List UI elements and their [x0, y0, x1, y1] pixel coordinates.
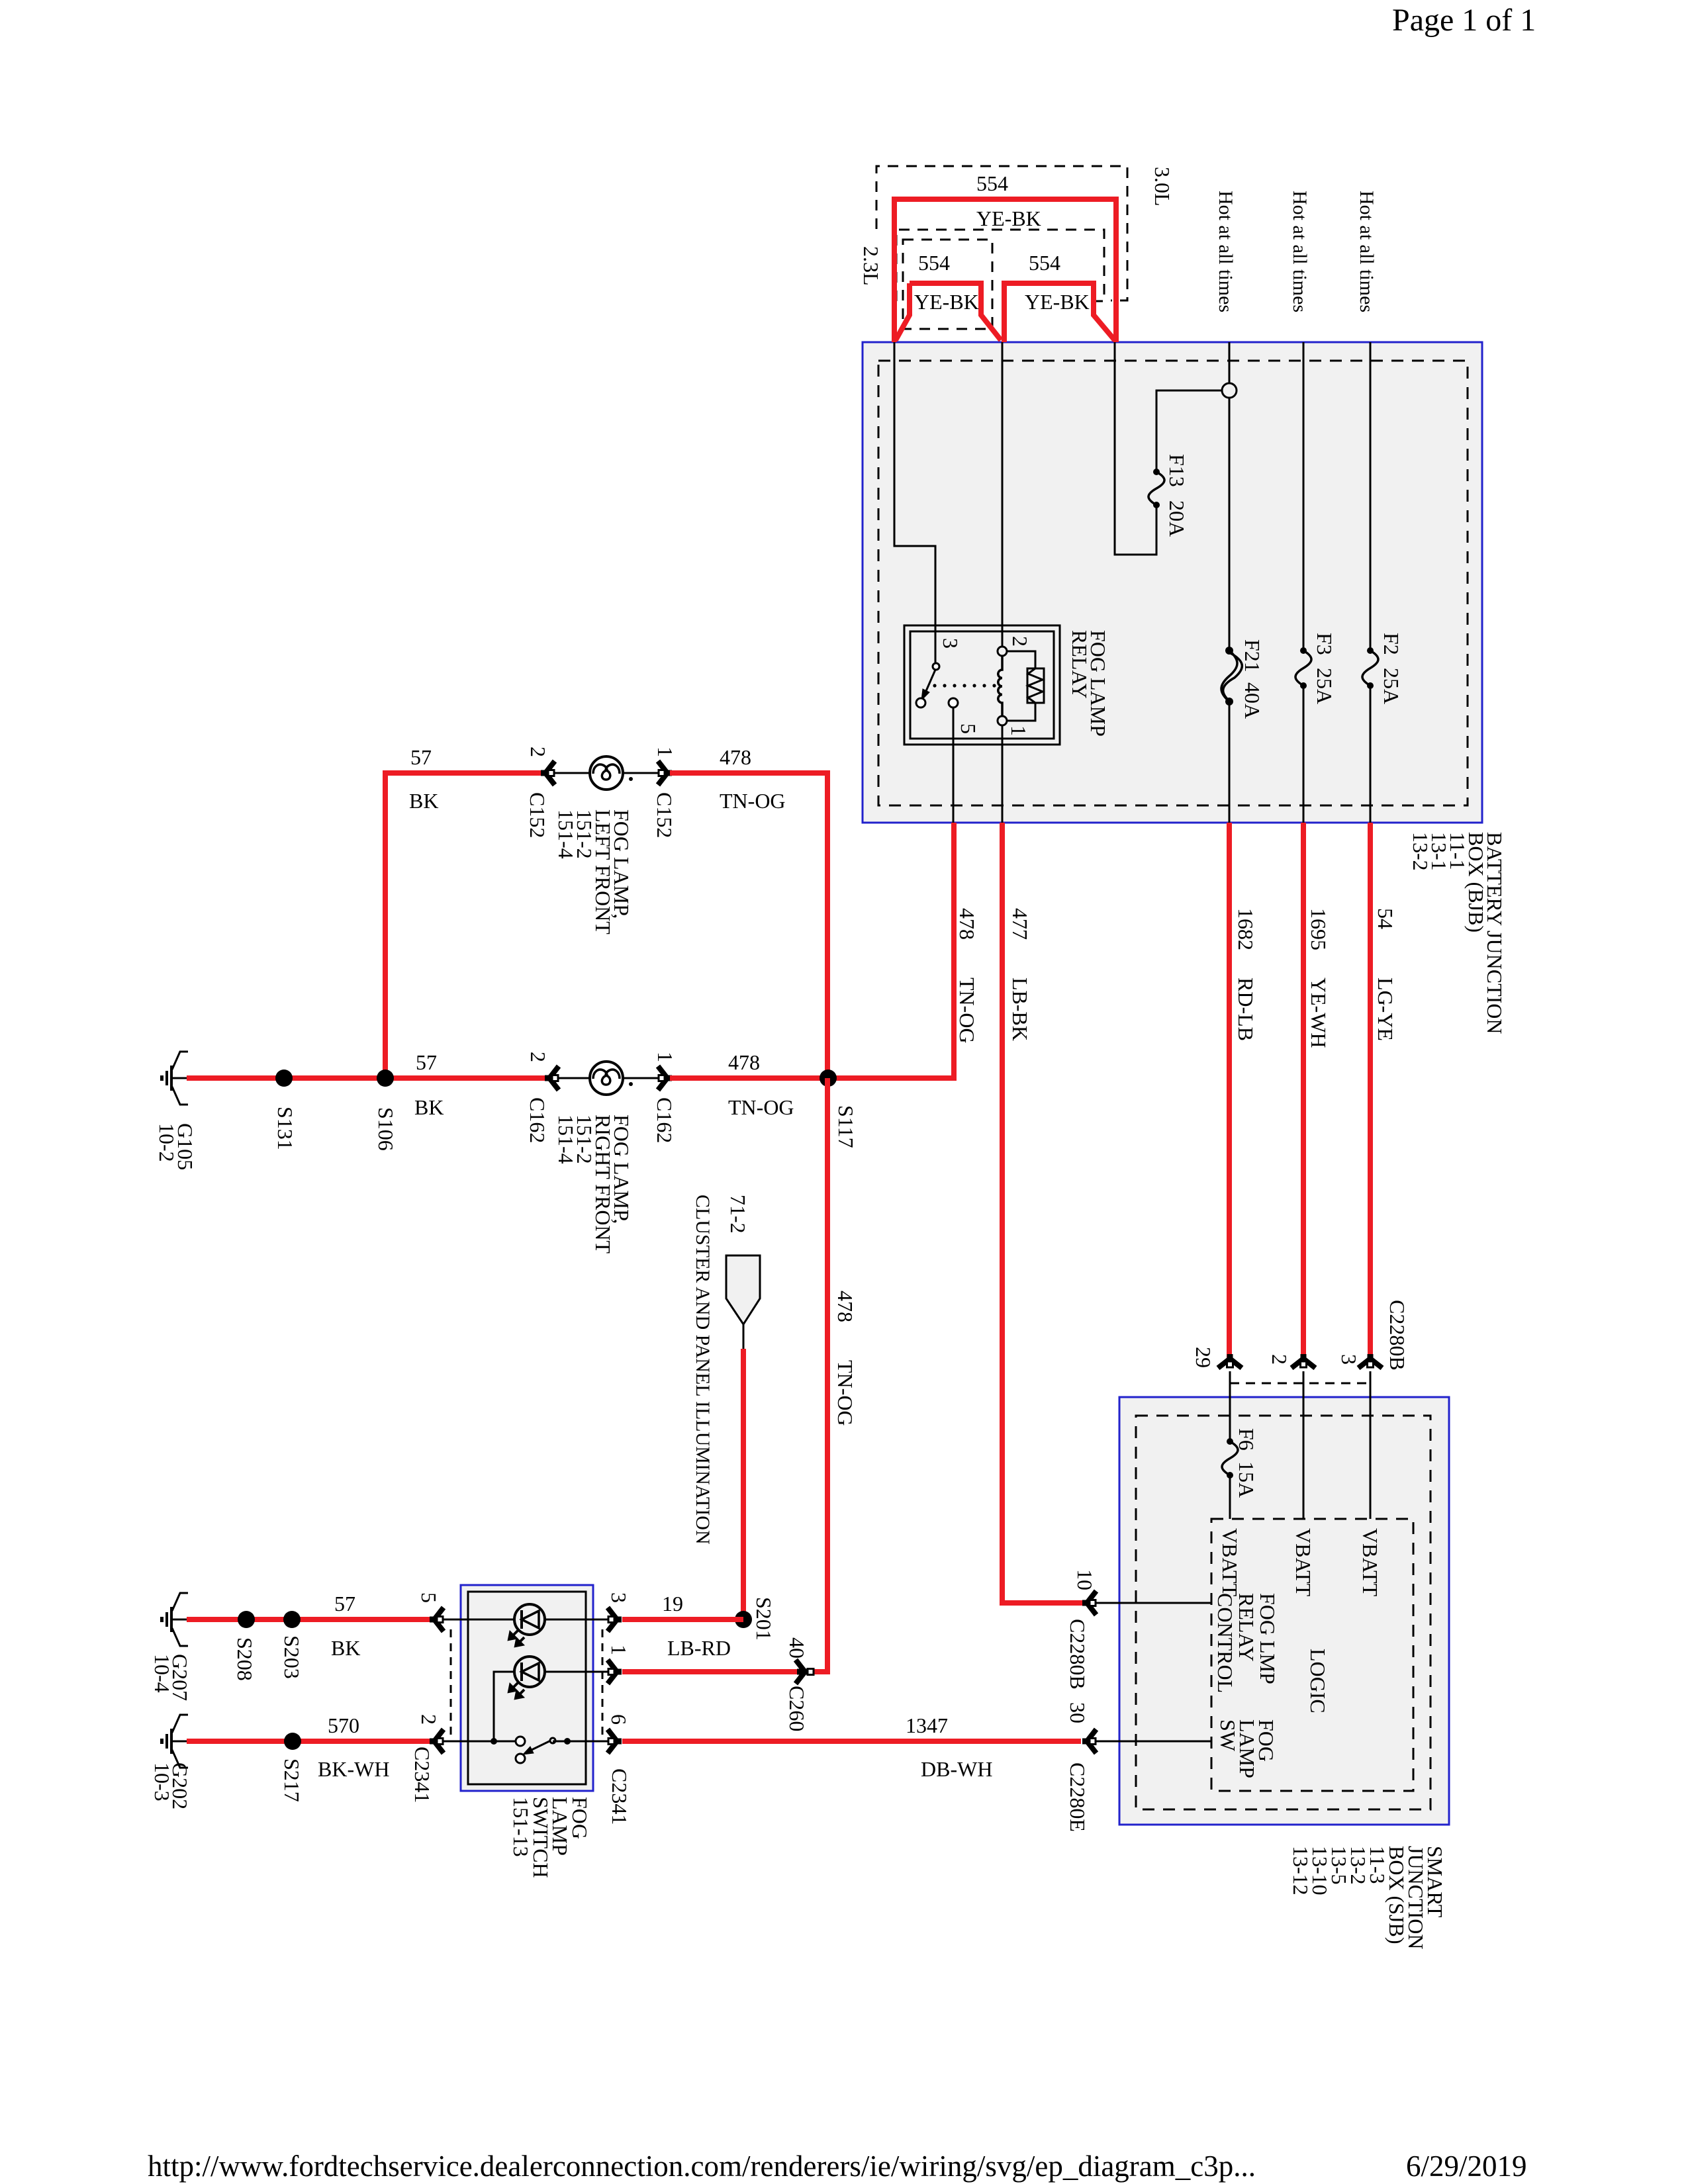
svg-text:S203: S203 — [280, 1635, 304, 1679]
svg-text:1682: 1682 — [1234, 908, 1258, 950]
fuse F21 40A — [1221, 647, 1242, 705]
smart junction box SJB — [1119, 1397, 1449, 1825]
svg-text:C152: C152 — [526, 792, 549, 838]
svg-text:29: 29 — [1192, 1347, 1215, 1368]
C2341 dashed connector lines — [450, 1629, 452, 1740]
wire 554 YE-BK 3.0L — [894, 199, 1116, 342]
splice S217 — [284, 1733, 301, 1750]
switch arm — [529, 1739, 553, 1751]
svg-text:478: 478 — [955, 908, 979, 940]
svg-text:TN-OG: TN-OG — [955, 978, 979, 1044]
svg-text:S201: S201 — [752, 1597, 776, 1641]
svg-text:19: 19 — [662, 1592, 683, 1615]
svg-text:25A: 25A — [1313, 668, 1336, 704]
wire VBATT 2 — [1303, 1371, 1305, 1519]
fuse F2 25A — [1362, 647, 1378, 689]
svg-text:F21: F21 — [1241, 639, 1264, 672]
wire 57 BK switch row — [187, 1617, 434, 1622]
wire switch internal left — [442, 1741, 516, 1743]
wire below F21 — [1229, 702, 1231, 823]
svg-text:25A: 25A — [1380, 668, 1403, 704]
svg-text:13-12: 13-12 — [1289, 1846, 1313, 1895]
svg-text:C2280E: C2280E — [1066, 1762, 1090, 1832]
svg-text:57: 57 — [334, 1592, 355, 1615]
wire 40 to C260 — [622, 1669, 814, 1674]
relay switch pivot — [933, 663, 939, 670]
relay dotted link — [933, 684, 996, 687]
svg-text:C152: C152 — [653, 792, 677, 838]
connector 71-2 cluster and panel illumination — [726, 1255, 760, 1324]
svg-text:TN-OG: TN-OG — [720, 789, 786, 813]
wire switch internal right — [553, 1741, 616, 1743]
svg-text:BK: BK — [331, 1636, 360, 1660]
F3 feed line — [1303, 342, 1305, 651]
fog lamp left front — [590, 756, 623, 790]
wire 1347 DB-WH — [622, 1739, 1081, 1744]
svg-text:Hot at all times: Hot at all times — [1289, 191, 1311, 312]
connector C152 pin 1 — [658, 761, 672, 785]
relay coil — [998, 656, 1002, 716]
F13 tap node — [1222, 383, 1237, 398]
svg-text:S117: S117 — [834, 1105, 858, 1148]
wire fog lmp relay control — [1096, 1602, 1211, 1604]
switch pivot — [550, 1738, 555, 1743]
wire 570 BK-WH — [187, 1739, 434, 1744]
wire lamp left internal — [553, 772, 661, 774]
svg-text:5: 5 — [957, 723, 980, 734]
svg-text:F3: F3 — [1313, 633, 1336, 655]
wire relay pin1 down — [1002, 725, 1004, 823]
svg-text:6/29/2019: 6/29/2019 — [1406, 2150, 1527, 2183]
svg-text:RELAY: RELAY — [1068, 630, 1092, 699]
connector C2280B pin 2 — [1291, 1354, 1315, 1368]
wire 19 LB-RD vertical — [741, 1349, 746, 1619]
svg-text:LB-BK: LB-BK — [1008, 978, 1032, 1041]
svg-text:C2341: C2341 — [410, 1747, 434, 1803]
ground G202 — [160, 1715, 189, 1768]
connector C152 pin 2 — [541, 761, 555, 785]
svg-text:BK-WH: BK-WH — [318, 1757, 389, 1781]
svg-text:F6: F6 — [1235, 1428, 1258, 1451]
svg-text:478: 478 — [720, 745, 751, 769]
svg-text:1695: 1695 — [1307, 908, 1331, 950]
svg-text:VBATT: VBATT — [1218, 1528, 1242, 1597]
svg-text:40: 40 — [785, 1637, 809, 1659]
svg-text:3: 3 — [939, 638, 962, 649]
svg-text:LB-RD: LB-RD — [667, 1636, 731, 1660]
svg-text:F2: F2 — [1380, 633, 1403, 655]
svg-text:10: 10 — [1073, 1569, 1097, 1590]
connector C162 pin 1 — [658, 1066, 672, 1090]
wire 54 LG-YE — [1368, 823, 1373, 1359]
wire 554 YE-BK 2.3L left — [896, 283, 910, 340]
connector C2280B pin 10 — [1082, 1591, 1096, 1615]
connector C2341 pin 1 — [608, 1660, 622, 1684]
svg-text:Hot at all times: Hot at all times — [1356, 191, 1378, 312]
wire F6 to logic — [1229, 1475, 1231, 1519]
svg-text:TN-OG: TN-OG — [833, 1360, 857, 1426]
svg-text:Page 1 of 1: Page 1 of 1 — [1392, 3, 1536, 38]
svg-text:1: 1 — [1007, 725, 1031, 736]
svg-text:C2341: C2341 — [608, 1768, 632, 1825]
svg-text:S217: S217 — [280, 1758, 304, 1802]
connector C260 pin 40 — [796, 1660, 814, 1684]
connector C2280B pin 3 — [1358, 1354, 1382, 1368]
splice S208 — [238, 1611, 255, 1628]
svg-text:478: 478 — [833, 1291, 857, 1322]
svg-text:554: 554 — [976, 171, 1008, 195]
wire VBATT 3 — [1370, 1371, 1372, 1519]
dashed option box 3.0L — [876, 166, 1127, 300]
fog lamp right front — [590, 1062, 623, 1095]
wire fog lamp sw — [1096, 1741, 1211, 1743]
wire LED2 row — [494, 1672, 514, 1741]
svg-text:54: 54 — [1374, 908, 1397, 929]
ground G105 — [160, 1052, 189, 1105]
wire 1695 YE-WH — [1301, 823, 1306, 1359]
svg-text:151-4: 151-4 — [554, 809, 578, 859]
fog lamp switch box — [461, 1585, 593, 1791]
svg-text:C2280B: C2280B — [1385, 1300, 1409, 1371]
svg-text:15A: 15A — [1235, 1461, 1258, 1498]
svg-text:2: 2 — [526, 747, 550, 757]
svg-text:151-13: 151-13 — [509, 1797, 533, 1857]
C2280B dashed bracket — [1230, 1383, 1370, 1385]
fuse F6 15A — [1222, 1438, 1238, 1479]
svg-text:151-4: 151-4 — [554, 1115, 578, 1164]
svg-text:477: 477 — [1008, 908, 1032, 940]
svg-text:3.0L: 3.0L — [1150, 167, 1174, 206]
svg-text:570: 570 — [328, 1713, 359, 1737]
svg-text:F13: F13 — [1165, 454, 1189, 487]
connector C2341 pin 2 — [430, 1729, 444, 1753]
relay pin 5 contact — [949, 698, 958, 707]
wire 478 TN-OG top row — [670, 773, 827, 1078]
wire LED1 row — [442, 1619, 616, 1621]
svg-text:Hot at all times: Hot at all times — [1215, 191, 1237, 312]
fuse F3 25A — [1295, 647, 1311, 689]
battery junction box BJB — [863, 342, 1482, 823]
svg-text:2: 2 — [417, 1714, 441, 1725]
SJB logic box — [1211, 1519, 1413, 1791]
connector C2280E pin 30 — [1082, 1729, 1096, 1753]
svg-text:YE-BK: YE-BK — [914, 290, 979, 314]
wire below F2 — [1370, 686, 1372, 823]
svg-text:10-2: 10-2 — [155, 1123, 179, 1162]
svg-text:1: 1 — [607, 1645, 631, 1655]
svg-text:FOG LMP: FOG LMP — [1256, 1593, 1280, 1684]
relay pin 1 terminal — [998, 716, 1007, 725]
switch illumination LED 1 — [509, 1604, 549, 1646]
wire into F6 — [1229, 1371, 1231, 1441]
svg-text:10-4: 10-4 — [150, 1654, 174, 1693]
switch fixed contact — [516, 1737, 525, 1746]
svg-text:57: 57 — [416, 1050, 437, 1074]
svg-text:3: 3 — [1337, 1354, 1361, 1365]
relay coil resistor branch — [1007, 651, 1035, 668]
relay NC contact — [916, 698, 925, 707]
svg-text:VBATT: VBATT — [1291, 1528, 1315, 1597]
svg-text:1: 1 — [653, 747, 677, 757]
svg-text:13-2: 13-2 — [1409, 832, 1432, 871]
wire 57 BK left fog lamp — [385, 773, 545, 1078]
relay switch arm — [926, 670, 935, 691]
switch illumination LED 2 — [509, 1657, 549, 1698]
svg-text:57: 57 — [410, 745, 432, 769]
relay pin 2 terminal — [998, 647, 1007, 656]
svg-text:1347: 1347 — [906, 1713, 948, 1737]
svg-text:554: 554 — [918, 251, 950, 275]
wire relay pin5 down — [953, 707, 955, 823]
wire lamp right internal — [557, 1077, 665, 1079]
splice S201 — [735, 1611, 752, 1628]
svg-text:LOGIC: LOGIC — [1306, 1649, 1330, 1713]
svg-text:5: 5 — [417, 1592, 441, 1603]
svg-text:DB-WH: DB-WH — [921, 1757, 992, 1781]
connector C2280B pin 29 — [1218, 1354, 1242, 1368]
svg-text:CONTROL: CONTROL — [1213, 1593, 1237, 1693]
dashed option box 2.3L — [896, 230, 1104, 301]
wire 19 LB-RD horizontal — [622, 1617, 743, 1622]
svg-text:SW: SW — [1216, 1719, 1240, 1752]
svg-text:2.3L: 2.3L — [859, 246, 883, 286]
svg-text:1: 1 — [653, 1052, 677, 1062]
wire 477 LB-BK from BJB — [1002, 823, 1086, 1603]
svg-text:10-3: 10-3 — [150, 1762, 174, 1801]
connector C2341 pin 6 — [608, 1729, 622, 1753]
svg-text:40A: 40A — [1241, 682, 1264, 719]
svg-text:TN-OG: TN-OG — [728, 1095, 794, 1119]
wire below F3 — [1303, 686, 1305, 823]
connector C2341 pin 3 — [608, 1608, 622, 1631]
svg-text:478: 478 — [728, 1050, 760, 1074]
wire 554 YE-BK 2.3L right — [1004, 283, 1115, 342]
svg-text:RELAY: RELAY — [1235, 1593, 1258, 1662]
F21 feed line — [1229, 342, 1231, 383]
svg-text:2: 2 — [1008, 636, 1032, 647]
splice S106 — [377, 1069, 394, 1087]
svg-text:http://www.fordtechservice.dea: http://www.fordtechservice.dealerconnect… — [148, 2150, 1256, 2183]
svg-text:30: 30 — [1066, 1702, 1090, 1723]
splice S203 — [283, 1611, 301, 1628]
splice S131 — [275, 1069, 293, 1087]
F2 feed line — [1370, 342, 1372, 651]
fog lamp relay box — [904, 625, 1060, 745]
svg-text:YE-WH: YE-WH — [1307, 978, 1331, 1048]
svg-text:S131: S131 — [273, 1107, 297, 1150]
switch junction dot — [491, 1738, 497, 1745]
svg-text:VBATT: VBATT — [1358, 1528, 1382, 1597]
switch lower contact — [516, 1754, 525, 1763]
fuse F13 20A — [1149, 469, 1164, 508]
svg-text:C260: C260 — [785, 1686, 809, 1731]
wire 478 TN-OG down from S117 — [814, 1078, 827, 1672]
svg-text:3: 3 — [607, 1592, 631, 1603]
svg-text:BK: BK — [414, 1095, 444, 1119]
svg-text:6: 6 — [607, 1714, 631, 1725]
svg-text:RD-LB: RD-LB — [1234, 978, 1258, 1041]
svg-text:S106: S106 — [374, 1107, 398, 1151]
svg-text:71-2: 71-2 — [726, 1195, 750, 1234]
wire 1682 RD-LB — [1227, 823, 1232, 1359]
svg-text:CLUSTER AND PANEL ILLUMINATION: CLUSTER AND PANEL ILLUMINATION — [692, 1195, 714, 1545]
svg-text:YE-BK: YE-BK — [976, 206, 1041, 230]
ground G207 — [160, 1593, 189, 1646]
svg-text:20A: 20A — [1165, 500, 1189, 537]
svg-text:C162: C162 — [526, 1097, 549, 1143]
dashed option box inner — [903, 240, 992, 329]
splice S117 — [820, 1069, 837, 1087]
svg-text:C2280B: C2280B — [1066, 1619, 1090, 1690]
wire pin2 feed — [1002, 342, 1004, 647]
wire F13 branch — [1115, 342, 1156, 555]
svg-text:BK: BK — [409, 789, 438, 813]
wire pin3 feed — [894, 342, 935, 662]
svg-text:554: 554 — [1029, 251, 1060, 275]
svg-text:LG-YE: LG-YE — [1374, 978, 1397, 1041]
connector C162 pin 2 — [545, 1066, 559, 1090]
wire 478 TN-OG from BJB — [828, 823, 954, 1078]
svg-text:YE-BK: YE-BK — [1025, 290, 1090, 314]
wire 478 row2 — [670, 1075, 954, 1081]
svg-text:S208: S208 — [233, 1637, 257, 1681]
wire 57 BK ground row — [187, 1075, 549, 1081]
svg-text:2: 2 — [1268, 1354, 1291, 1365]
svg-text:C162: C162 — [653, 1097, 677, 1143]
switch wire dot — [564, 1738, 571, 1745]
connector C2341 pin 5 — [430, 1608, 444, 1631]
svg-text:2: 2 — [526, 1052, 550, 1062]
